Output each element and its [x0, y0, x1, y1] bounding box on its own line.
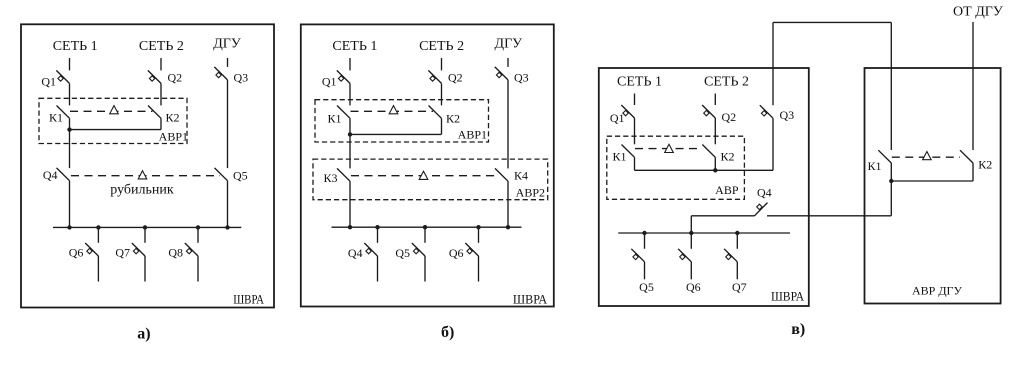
- wire bus to Q6 (б): [478, 227, 480, 243]
- svg-text:К1: К1: [328, 112, 342, 126]
- wire bus to Q4 (б): [377, 227, 379, 243]
- breaker Q1 (a): [56, 70, 69, 83]
- wire bus to Q8 (a): [197, 227, 199, 242]
- breaker Q3 (a): [214, 67, 227, 80]
- svg-text:К2: К2: [446, 112, 460, 126]
- wire Q2 to K2 (a): [160, 83, 162, 105]
- feeder breaker Q5 (в): [631, 249, 644, 262]
- interlock dashed link Q4-Q5 (a): [71, 175, 220, 177]
- svg-text:К3: К3: [324, 171, 338, 185]
- svg-text:Q6: Q6: [449, 246, 464, 260]
- feeder breaker Q8 (a): [185, 243, 198, 256]
- wire K2 drop to output link (a): [160, 118, 162, 129]
- wire bus to Q7 (в): [736, 233, 738, 249]
- wire Q4 to bus (a): [69, 181, 71, 228]
- junction node K1 output (б): [348, 132, 352, 136]
- bus bar (a): [53, 226, 241, 228]
- wire Q3 to K4 (б): [507, 80, 509, 168]
- svg-text:Q4: Q4: [348, 246, 363, 260]
- wire Q5 tail (в): [644, 262, 646, 280]
- svg-text:Q7: Q7: [115, 246, 130, 260]
- svg-text:Q3: Q3: [514, 71, 529, 85]
- breaker Q3 (в): [760, 105, 773, 118]
- wire СЕТЬ2 feed stub (б): [441, 58, 443, 70]
- node bus-Q7 (в): [735, 231, 739, 235]
- interlock triangle (АВР ДГУ): [923, 152, 932, 160]
- svg-text:СЕТЬ 1: СЕТЬ 1: [617, 75, 662, 90]
- panel б cabinet box ШВРА: [301, 24, 554, 306]
- svg-text:СЕТЬ 2: СЕТЬ 2: [419, 39, 464, 54]
- svg-text:К2: К2: [721, 150, 735, 164]
- svg-text:СЕТЬ 1: СЕТЬ 1: [332, 39, 377, 54]
- panel в cabinet box ШВРА: [599, 68, 809, 306]
- wire Q3 to Q5 (a): [227, 80, 229, 168]
- node bus-Q5 (в): [642, 231, 646, 235]
- wire СЕТЬ1 feed stub (в): [634, 94, 636, 106]
- wire СЕТЬ1 feed stub (a): [69, 58, 71, 70]
- node bus-Q7 (a): [143, 225, 147, 229]
- svg-text:Q2: Q2: [448, 71, 463, 85]
- wire ДГУ feed stub (б): [507, 58, 509, 67]
- wire K4 to bus (б): [507, 181, 509, 227]
- svg-text:Q1: Q1: [41, 75, 56, 89]
- breaker Q2 (б): [428, 70, 441, 83]
- svg-text:Q5: Q5: [395, 246, 410, 260]
- wire Q5 to bus (a): [227, 181, 229, 228]
- wire K1-K2 output link (б): [350, 133, 442, 135]
- svg-text:Q4: Q4: [757, 186, 772, 200]
- wire Q2 to K2 (в): [714, 118, 716, 144]
- node bus-K4 (б): [506, 225, 510, 229]
- breaker Q1 (б): [337, 70, 350, 83]
- wire K1 down (в): [634, 157, 636, 170]
- wire Q4 right segment (в): [767, 215, 891, 217]
- svg-text:К2: К2: [978, 158, 992, 172]
- svg-text:Q2: Q2: [722, 110, 737, 124]
- node bus-Q4 (б): [375, 225, 379, 229]
- svg-text:К1: К1: [49, 110, 63, 124]
- contactor K2 (б): [429, 106, 442, 119]
- node bus-Q8 (a): [196, 225, 200, 229]
- contactor K4 (б): [495, 168, 508, 181]
- wire СЕТЬ2 feed stub (a): [160, 58, 162, 70]
- interlock triangle (a middle): [138, 171, 147, 179]
- svg-text:Q6: Q6: [686, 280, 701, 294]
- wire Q7 tail (a): [144, 256, 146, 282]
- bus bar (б): [332, 226, 522, 228]
- wire K1-K2 дгу output link (в): [891, 180, 973, 182]
- breaker Q2 (в): [702, 105, 715, 118]
- interlock dashed link K3-K4 (б): [351, 175, 495, 177]
- svg-text:Q4: Q4: [43, 168, 58, 182]
- wire K2 drop (в): [714, 157, 716, 170]
- svg-text:а): а): [137, 325, 150, 342]
- wire bus to Q6 (в): [690, 233, 692, 249]
- wire Q8 tail (a): [197, 256, 199, 282]
- interlock dashed link K1-K2 дгу (в): [892, 156, 960, 158]
- svg-text:СЕТЬ 1: СЕТЬ 1: [53, 39, 98, 54]
- wire bus to Q6 (a): [97, 227, 99, 242]
- wire СЕТЬ1 feed stub (б): [349, 58, 351, 70]
- node bus-Q5 (a): [225, 225, 229, 229]
- feeder breaker Q6 (б): [465, 243, 478, 256]
- wire Q2 to K2 (б): [441, 83, 443, 105]
- junction node K1 output (a): [67, 127, 71, 131]
- feeder breaker Q7 (в): [724, 249, 737, 262]
- svg-text:К2: К2: [166, 110, 180, 124]
- svg-text:Q8: Q8: [168, 246, 183, 260]
- wire Q5 tail (б): [424, 256, 426, 282]
- svg-text:АВР ДГУ: АВР ДГУ: [912, 284, 962, 298]
- svg-text:ОТ ДГУ: ОТ ДГУ: [953, 4, 1003, 19]
- wire ОТ ДГУ drop to K2 (в): [972, 22, 974, 150]
- feeder breaker Q6 (a): [85, 243, 98, 256]
- wire Q6 tail (a): [97, 256, 99, 282]
- svg-text:Q5: Q5: [233, 169, 248, 183]
- wire Q4 tail (б): [377, 256, 379, 282]
- wire output link (в): [635, 169, 774, 171]
- wire СЕТЬ2 feed stub (в): [714, 94, 716, 106]
- contactor K3 (б): [337, 168, 350, 181]
- svg-text:К1: К1: [868, 159, 882, 173]
- svg-text:Q7: Q7: [732, 280, 747, 294]
- wire K1 down to K3 (б): [349, 118, 351, 168]
- wire K2 дгу drop (в): [972, 163, 974, 181]
- svg-text:Q1: Q1: [610, 111, 625, 125]
- panel в box АВР ДГУ: [865, 68, 1001, 304]
- wire bus to Q5 (в): [644, 233, 646, 249]
- dashed box АВР (в): [607, 136, 745, 199]
- junction node K1 дгу output (в): [889, 179, 893, 183]
- knife switch Q5 (a): [215, 168, 228, 181]
- svg-text:СЕТЬ 2: СЕТЬ 2: [139, 39, 184, 54]
- bus bar (в): [618, 232, 790, 234]
- svg-text:Q5: Q5: [639, 280, 654, 294]
- breaker Q1 (в): [621, 105, 634, 118]
- breaker Q2 (a): [148, 70, 161, 83]
- svg-text:ШВРА: ШВРА: [513, 292, 548, 307]
- node bus-K3 (б): [348, 225, 352, 229]
- node bus-Q6 (a): [96, 225, 100, 229]
- svg-text:Q3: Q3: [780, 108, 795, 122]
- wire K1 дгу down to node (в): [890, 163, 892, 181]
- svg-text:Q6: Q6: [69, 246, 84, 260]
- wire K2 drop to output link (б): [441, 118, 443, 134]
- wire Q1 to K1 (a): [69, 83, 71, 105]
- node bus-Q4 (a): [67, 225, 71, 229]
- wire K1 down to Q4 (a): [69, 118, 71, 168]
- svg-text:Q3: Q3: [234, 71, 249, 85]
- svg-text:К1: К1: [613, 150, 627, 164]
- wire АВР ДГУ drop to Q4 (в): [890, 181, 892, 216]
- wire Q4 left segment (в): [691, 215, 754, 217]
- interlock triangle (в ШВРА): [665, 144, 674, 152]
- knife switch Q4 (a): [57, 168, 70, 181]
- dashed box АВР1 (a): [39, 98, 187, 143]
- contactor K1 (б): [337, 106, 350, 119]
- interlock triangle (б middle): [419, 171, 428, 179]
- wire bus riser to Q4 (в): [690, 216, 692, 233]
- svg-text:Q1: Q1: [322, 75, 337, 89]
- wire Q7 tail (в): [736, 262, 738, 280]
- svg-text:ШВРА: ШВРА: [233, 292, 264, 307]
- interlock dashed link K1-K2 (a): [70, 110, 153, 112]
- wire bus to Q7 (a): [144, 227, 146, 242]
- interlock dashed link K1-K2 (в): [635, 148, 702, 150]
- svg-text:АВР1: АВР1: [159, 130, 188, 144]
- wire top link Q3 to АВР ДГУ (в): [773, 21, 891, 23]
- wire Q6 tail (в): [690, 262, 692, 280]
- svg-text:СЕТЬ 2: СЕТЬ 2: [704, 75, 749, 90]
- node bus-riser (в): [689, 231, 693, 235]
- wire Q1 to K1 (б): [349, 83, 351, 105]
- feeder breaker Q6 (в): [678, 249, 691, 262]
- wire Q6 tail (б): [478, 256, 480, 282]
- dashed box АВР1 (б): [315, 100, 489, 142]
- junction node K2 output (в): [713, 168, 717, 172]
- svg-text:ДГУ: ДГУ: [213, 37, 241, 52]
- contactor K1 (a): [57, 106, 70, 119]
- wire bus to Q5 (б): [424, 227, 426, 243]
- wire drop to K1 дгу (в): [890, 22, 892, 150]
- wire K3 to bus (б): [349, 181, 351, 227]
- wire drop to Q3 (в): [772, 22, 774, 105]
- contactor K2 АВР ДГУ (в): [960, 150, 973, 163]
- wire Q3 to output node (в): [772, 118, 774, 170]
- feeder breaker Q7 (a): [132, 243, 145, 256]
- interlock triangle (a top): [110, 106, 119, 114]
- node bus-Q6 (б): [476, 225, 480, 229]
- panel a cabinet box ШВРА: [21, 24, 274, 307]
- contactor K2 (a): [148, 106, 161, 119]
- interlock triangle (б top): [389, 106, 398, 114]
- contactor K2 (в): [702, 145, 715, 158]
- svg-text:АВР2: АВР2: [516, 186, 545, 200]
- svg-text:К4: К4: [514, 169, 528, 183]
- breaker Q4 (в): [755, 203, 768, 216]
- wire K1-K2 output link (a): [70, 129, 162, 131]
- breaker Q3 (б): [495, 67, 508, 80]
- svg-text:ДГУ: ДГУ: [495, 37, 523, 52]
- interlock dashed link K1-K2 (б): [351, 110, 434, 112]
- dashed box АВР2 (б): [313, 159, 548, 200]
- svg-text:б): б): [441, 324, 454, 341]
- contactor K1 АВР ДГУ (в): [878, 150, 891, 163]
- svg-text:Q2: Q2: [168, 71, 183, 85]
- feeder breaker Q5 (б): [412, 243, 425, 256]
- svg-text:АВР: АВР: [715, 183, 739, 197]
- contactor K1 (в): [622, 145, 635, 158]
- svg-text:АВР1: АВР1: [458, 128, 487, 142]
- svg-text:ШВРА: ШВРА: [771, 289, 805, 304]
- svg-text:в): в): [791, 321, 805, 338]
- feeder breaker Q4 (б): [364, 243, 377, 256]
- node bus-Q5 (б): [423, 225, 427, 229]
- svg-text:рубильник: рубильник: [110, 183, 174, 198]
- wire Q1 to K1 (в): [634, 118, 636, 144]
- wire ДГУ feed stub (a): [227, 58, 229, 67]
